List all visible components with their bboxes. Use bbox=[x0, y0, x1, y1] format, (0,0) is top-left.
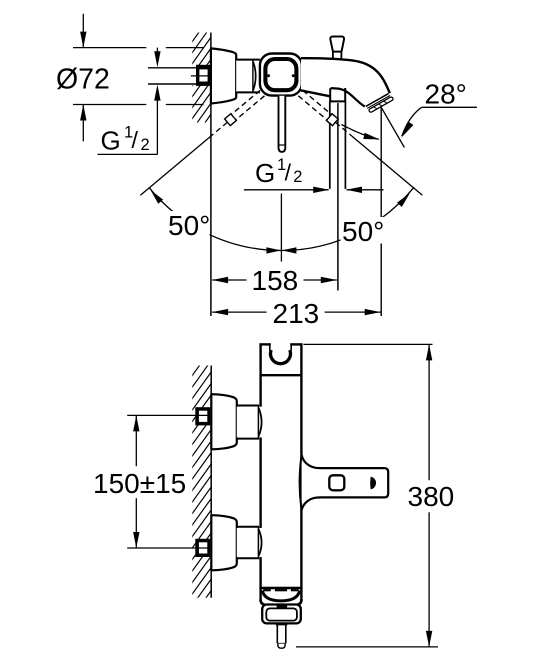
wall face line (side view) bbox=[210, 366, 212, 598]
wall face line / left extension line bbox=[210, 33, 212, 317]
body cap line bbox=[261, 374, 302, 376]
svg-text:/: / bbox=[132, 127, 139, 153]
svg-text:2: 2 bbox=[141, 136, 150, 154]
nipple center line bbox=[191, 75, 214, 77]
dim G1/2 left arrows bbox=[156, 48, 158, 53]
svg-text:150±15: 150±15 bbox=[93, 468, 186, 499]
arc arrow left center bbox=[266, 247, 281, 253]
dim 28deg spout axis line bbox=[382, 108, 405, 148]
svg-text:50°: 50° bbox=[168, 210, 210, 241]
handle swing ray left 50deg bbox=[236, 96, 264, 120]
lever handle stick bbox=[279, 96, 286, 152]
50deg dimension arc bbox=[149, 187, 414, 250]
dim Ø72 extension lines bbox=[73, 47, 146, 49]
S-union escutcheon (top view) bbox=[211, 48, 236, 103]
outlet tube bbox=[276, 624, 288, 626]
dim Ø72 arrows bbox=[82, 14, 84, 47]
spout body bbox=[301, 58, 390, 107]
upper nipple bbox=[195, 407, 210, 425]
handle squircle inner ring bbox=[265, 59, 296, 90]
svg-text:28°: 28° bbox=[425, 79, 467, 110]
svg-text:213: 213 bbox=[273, 298, 320, 329]
arc arrow right center bbox=[282, 247, 297, 253]
dim 213 bbox=[212, 309, 228, 315]
label G1/2 left leader bbox=[98, 153, 158, 155]
lever handle (side view) bbox=[302, 455, 389, 510]
label 50deg left bbox=[167, 211, 210, 238]
spout top edge bbox=[301, 58, 390, 93]
dim 380 ext lines bbox=[304, 343, 433, 345]
dim 213 right extension bbox=[380, 107, 382, 316]
dim 150 ref lines bbox=[127, 414, 207, 416]
lower nipple bbox=[195, 539, 210, 557]
lower union nut bbox=[237, 528, 264, 557]
mousepiece outer bbox=[262, 605, 301, 624]
mousepiece notch bbox=[277, 605, 288, 607]
squircle dots bbox=[267, 74, 270, 77]
hook ring bbox=[271, 343, 291, 347]
svg-text:G: G bbox=[255, 158, 275, 188]
svg-text:G: G bbox=[101, 126, 121, 156]
dim 150 arrows bbox=[133, 415, 139, 431]
dim 158 bbox=[212, 277, 228, 283]
svg-text:50°: 50° bbox=[342, 216, 384, 247]
dim 28deg left arc bbox=[342, 125, 379, 140]
diverter knob bbox=[330, 37, 344, 52]
svg-text:/: / bbox=[285, 160, 292, 186]
upper union nut bbox=[237, 407, 264, 438]
dim G1/2 mid line bbox=[244, 189, 329, 191]
label 50deg right bbox=[341, 217, 385, 244]
dim 380 arrows bbox=[426, 344, 432, 360]
upper union escutcheon bbox=[211, 394, 237, 449]
spout outlet aerator cap bbox=[366, 93, 394, 113]
spout bottom edge left bbox=[301, 90, 330, 96]
faucet body (side view) bbox=[261, 344, 302, 588]
supply pipe behind wall bbox=[186, 67, 197, 86]
svg-text:158: 158 bbox=[252, 265, 299, 296]
handle center reference line bbox=[280, 194, 282, 262]
handle logo square bbox=[329, 475, 344, 490]
shower outlet pipe bbox=[329, 102, 331, 189]
svg-text:380: 380 bbox=[408, 481, 455, 512]
diverter pipe upper section bbox=[331, 87, 345, 101]
mousepiece inner bbox=[266, 608, 297, 620]
dim 28deg leader bbox=[422, 106, 477, 108]
pipe nipple fitting (top view) bbox=[196, 65, 211, 86]
arc arrow left end bbox=[148, 188, 163, 204]
handle indicator dot bbox=[370, 477, 376, 490]
outlet mouth arc bbox=[262, 591, 299, 601]
lower union escutcheon bbox=[211, 515, 237, 570]
arc arrow right end bbox=[397, 191, 412, 207]
outlet housing sides bbox=[259, 588, 261, 602]
outlet housing top line bbox=[261, 587, 302, 589]
spout bottom edge right bbox=[331, 88, 365, 107]
svg-text:Ø72: Ø72 bbox=[56, 64, 110, 96]
union nut (top view) bbox=[236, 60, 260, 93]
svg-text:2: 2 bbox=[293, 168, 302, 186]
handle swing ray right 50deg bbox=[303, 90, 331, 114]
handle squircle outer bbox=[260, 54, 302, 96]
